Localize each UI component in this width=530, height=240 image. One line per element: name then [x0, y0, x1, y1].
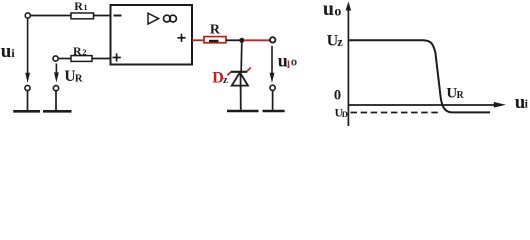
svg-text:R: R [457, 90, 465, 101]
wire R to junction [226, 39, 240, 41]
wire ui input vertical [27, 18, 29, 74]
zener Dz anode triangle [232, 72, 248, 85]
svg-text:1: 1 [83, 2, 87, 12]
terminal uo top [270, 37, 275, 42]
svg-text:0: 0 [334, 88, 341, 104]
svg-text:u: u [323, 0, 334, 20]
svg-text:R: R [73, 44, 82, 58]
svg-text:R: R [75, 73, 83, 84]
ground bar zener [227, 110, 259, 113]
wire junction to uo terminal (red) [244, 39, 270, 41]
wire through zener to ground [240, 72, 242, 110]
svg-text:z: z [223, 74, 228, 86]
ground bar left [13, 110, 40, 113]
svg-text:2: 2 [82, 47, 86, 57]
op-amp gain symbol triangle [148, 13, 159, 24]
black mark inside R [209, 40, 219, 42]
svg-text:o: o [334, 5, 341, 20]
graph x-axis [348, 104, 495, 106]
graph y-axis [347, 8, 349, 126]
svg-text:l: l [287, 59, 290, 71]
junction node [239, 38, 244, 43]
ground bar uo [263, 110, 285, 113]
transfer curve [349, 40, 490, 112]
wire zener branch [240, 42, 243, 71]
zener bend right (red) [247, 68, 251, 72]
svg-text:z: z [337, 35, 343, 49]
resistor R2 [71, 56, 92, 62]
svg-text:R: R [74, 0, 83, 13]
wire op-amp output (red) [192, 39, 204, 41]
op-amp non-inverting input marker [113, 53, 121, 61]
op-amp infinity symbol [164, 15, 177, 22]
wire [31, 15, 71, 17]
wire [94, 15, 111, 17]
terminal bottom UR [53, 86, 58, 91]
terminal bottom left [25, 85, 30, 90]
svg-text:D: D [342, 109, 348, 119]
ground bar UR [43, 110, 72, 113]
svg-text:u: u [1, 41, 12, 62]
UR arrow [55, 64, 57, 75]
zener Dz cathode bar [231, 71, 248, 73]
resistor R1 [71, 13, 94, 19]
uo arrow [271, 46, 273, 74]
svg-text:o: o [291, 55, 297, 69]
svg-text:R: R [210, 22, 221, 37]
zener bend left (red) [227, 72, 230, 75]
dashed UD level [351, 112, 439, 114]
ui arrowhead [25, 73, 30, 83]
op-amp inverting input marker [114, 15, 122, 17]
terminal UR [53, 56, 58, 61]
op-amp output plus marker [177, 34, 185, 42]
wire [58, 58, 71, 60]
resistor R (red) [204, 37, 226, 43]
terminal bottom uo [270, 85, 275, 90]
terminal input ui top [25, 13, 30, 18]
wire [92, 58, 111, 60]
op-amp U1 box [111, 5, 193, 65]
